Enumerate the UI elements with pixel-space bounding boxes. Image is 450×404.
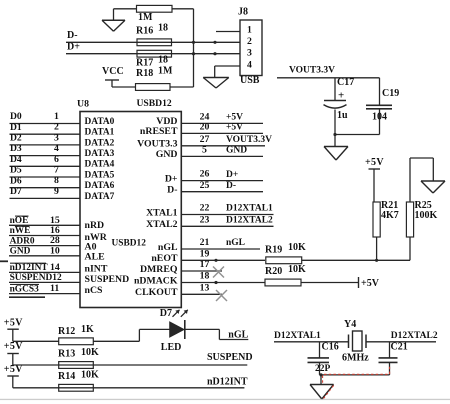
svg-text:C21: C21 — [391, 341, 408, 352]
svg-text:DATA4: DATA4 — [85, 160, 115, 170]
svg-text:4: 4 — [54, 143, 59, 154]
svg-text:nD12INT: nD12INT — [207, 377, 248, 388]
svg-text:DATA6: DATA6 — [85, 181, 115, 191]
svg-text:LED: LED — [161, 342, 182, 353]
svg-text:1M: 1M — [138, 12, 153, 23]
svg-text:DATA2: DATA2 — [85, 138, 115, 148]
svg-text:D+: D+ — [226, 170, 238, 180]
svg-text:23: 23 — [200, 214, 210, 225]
svg-text:USB: USB — [240, 75, 260, 86]
svg-text:D12XTAL1: D12XTAL1 — [226, 204, 273, 214]
svg-text:DATA0: DATA0 — [85, 117, 115, 127]
svg-text:D+: D+ — [165, 173, 178, 184]
svg-text:GND: GND — [226, 146, 247, 156]
svg-text:18: 18 — [158, 54, 168, 65]
svg-text:GND: GND — [10, 246, 31, 256]
svg-text:2: 2 — [247, 36, 252, 47]
svg-text:D12XTAL2: D12XTAL2 — [226, 215, 273, 225]
svg-text:C17: C17 — [337, 77, 354, 88]
svg-text:DMREQ: DMREQ — [140, 264, 178, 275]
svg-text:10K: 10K — [288, 264, 306, 275]
svg-text:18: 18 — [200, 271, 210, 282]
svg-text:22: 22 — [200, 203, 210, 214]
svg-text:nEOT: nEOT — [151, 253, 178, 264]
svg-text:9: 9 — [54, 186, 59, 197]
svg-text:7: 7 — [54, 164, 59, 175]
svg-text:2: 2 — [54, 122, 59, 133]
svg-text:ALE: ALE — [85, 251, 106, 262]
svg-text:DATA7: DATA7 — [85, 192, 115, 202]
svg-text:11: 11 — [50, 283, 59, 294]
svg-text:3: 3 — [247, 48, 252, 59]
svg-text:R17: R17 — [136, 57, 153, 68]
svg-text:U8: U8 — [77, 98, 89, 109]
svg-text:20: 20 — [200, 121, 210, 132]
svg-text:D12XTAL1: D12XTAL1 — [274, 331, 321, 341]
svg-text:nDMACK: nDMACK — [134, 275, 178, 286]
svg-text:27: 27 — [200, 134, 210, 145]
svg-text:C19: C19 — [382, 88, 399, 99]
svg-text:R13: R13 — [58, 348, 75, 359]
svg-text:SUSPEND: SUSPEND — [85, 274, 130, 285]
svg-text:4: 4 — [247, 60, 252, 71]
svg-text:nCS: nCS — [85, 285, 104, 296]
svg-text:R18: R18 — [136, 68, 153, 79]
svg-text:19: 19 — [200, 248, 210, 259]
svg-text:VCC: VCC — [102, 66, 124, 77]
svg-text:R14: R14 — [58, 371, 75, 382]
svg-text:nD12INT: nD12INT — [10, 263, 49, 273]
svg-text:nRD: nRD — [85, 220, 105, 231]
svg-text:+5V: +5V — [4, 317, 23, 328]
svg-text:DATA5: DATA5 — [85, 170, 115, 180]
svg-text:USBD12: USBD12 — [112, 238, 147, 248]
svg-text:26: 26 — [200, 169, 210, 180]
svg-text:C16: C16 — [322, 341, 339, 352]
svg-text:nGL: nGL — [226, 238, 245, 248]
svg-text:R20: R20 — [265, 266, 282, 277]
svg-text:1M: 1M — [158, 65, 173, 76]
svg-text:10K: 10K — [81, 347, 99, 358]
svg-text:18: 18 — [158, 22, 168, 33]
svg-text:D7: D7 — [10, 186, 22, 197]
svg-text:13: 13 — [200, 282, 210, 293]
svg-text:+5V: +5V — [361, 278, 380, 289]
svg-text:10K: 10K — [81, 369, 99, 380]
svg-text:100K: 100K — [415, 210, 438, 221]
svg-text:DATA3: DATA3 — [85, 149, 115, 159]
svg-text:VOUT3.3V: VOUT3.3V — [226, 135, 272, 145]
svg-text:D0: D0 — [10, 111, 22, 122]
svg-text:nGL: nGL — [158, 242, 178, 253]
svg-text:104: 104 — [372, 111, 387, 122]
svg-text:25: 25 — [200, 180, 210, 191]
svg-text:14: 14 — [50, 262, 60, 273]
svg-text:SUSPEND: SUSPEND — [207, 352, 253, 363]
svg-text:nGCS3: nGCS3 — [10, 284, 39, 294]
svg-text:1: 1 — [247, 24, 252, 35]
svg-text:6MHz: 6MHz — [342, 352, 369, 363]
svg-text:+5V: +5V — [365, 157, 384, 168]
svg-text:17: 17 — [200, 259, 210, 270]
svg-text:R19: R19 — [265, 244, 282, 255]
svg-text:D4: D4 — [10, 154, 22, 165]
svg-text:D6: D6 — [10, 175, 22, 186]
svg-text:4K7: 4K7 — [381, 210, 399, 221]
svg-text:nOE: nOE — [10, 216, 29, 226]
svg-text:D-: D- — [167, 184, 177, 195]
svg-text:nGL: nGL — [228, 329, 248, 340]
svg-text:8: 8 — [54, 175, 59, 186]
svg-text:10: 10 — [50, 245, 60, 256]
svg-text:1K: 1K — [81, 324, 94, 335]
svg-text:USBD12: USBD12 — [137, 98, 172, 109]
svg-text:D7: D7 — [160, 308, 172, 319]
svg-text:D3: D3 — [10, 143, 22, 154]
svg-text:D2: D2 — [10, 133, 22, 144]
svg-text:D12XTAL2: D12XTAL2 — [391, 331, 438, 341]
svg-text:DATA1: DATA1 — [85, 128, 115, 138]
svg-text:D-: D- — [226, 181, 236, 191]
svg-text:D+: D+ — [67, 41, 80, 52]
svg-text:XTAL1: XTAL1 — [146, 207, 177, 218]
svg-text:nINT: nINT — [85, 264, 108, 275]
svg-text:ADR0: ADR0 — [10, 236, 35, 246]
svg-text:D5: D5 — [10, 165, 22, 176]
svg-text:+5V: +5V — [226, 113, 243, 123]
svg-text:1u: 1u — [337, 110, 348, 121]
svg-text:3: 3 — [54, 132, 59, 143]
svg-text:CLKOUT: CLKOUT — [135, 287, 178, 298]
svg-text:21: 21 — [200, 237, 210, 248]
svg-text:10K: 10K — [288, 242, 306, 253]
svg-text:Y4: Y4 — [344, 319, 356, 330]
svg-text:22P: 22P — [315, 364, 331, 374]
svg-text:+: + — [338, 90, 344, 102]
svg-text:nRESET: nRESET — [140, 126, 178, 137]
svg-text:VOUT3.3: VOUT3.3 — [137, 139, 177, 150]
svg-text:nWE: nWE — [10, 226, 31, 236]
svg-text:5: 5 — [202, 144, 207, 155]
svg-text:VOUT3.3V: VOUT3.3V — [289, 66, 335, 76]
svg-text:+5V: +5V — [226, 123, 243, 133]
svg-text:J8: J8 — [238, 6, 248, 17]
svg-text:1: 1 — [54, 111, 59, 122]
svg-text:GND: GND — [156, 149, 178, 160]
svg-text:D-: D- — [67, 30, 78, 41]
svg-text:D1: D1 — [10, 122, 22, 133]
svg-text:R16: R16 — [136, 25, 153, 36]
svg-text:6: 6 — [54, 154, 59, 165]
svg-text:XTAL2: XTAL2 — [146, 219, 177, 230]
svg-text:+5V: +5V — [4, 341, 23, 352]
svg-text:R12: R12 — [58, 326, 75, 337]
svg-text:SUSPEND12: SUSPEND12 — [10, 273, 62, 283]
